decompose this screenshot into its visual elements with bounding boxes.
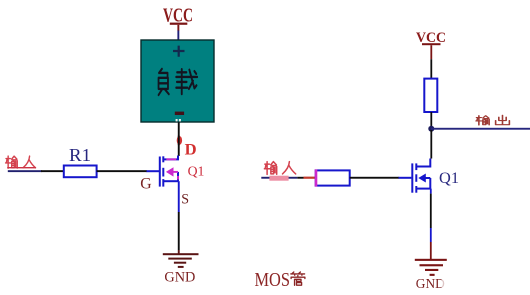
load label 负 xyxy=(159,69,169,95)
port 输入 (left) red underline xyxy=(7,167,36,168)
svg-text:Q1: Q1 xyxy=(439,170,459,187)
wire: to gate resistor (black bit) xyxy=(297,177,303,179)
body arrow (blue) xyxy=(418,174,426,183)
red pin marker on drain wire xyxy=(177,136,182,145)
load box 负载 xyxy=(141,40,214,122)
wire: load box to drain (node D) xyxy=(178,123,180,157)
wire: VCC to load box xyxy=(177,31,179,41)
body lead vertical xyxy=(177,172,179,181)
wire: source to ground (maroon bottom) xyxy=(430,242,432,260)
power port VCC (right) stem xyxy=(430,45,432,59)
red pin segment xyxy=(304,177,316,179)
load plus terminal xyxy=(173,46,185,57)
watermark smudge over GND xyxy=(442,276,454,289)
wire: source to ground (blue top) xyxy=(430,189,432,194)
wire: VCC to pull-up resistor xyxy=(430,59,432,78)
svg-text:Q1: Q1 xyxy=(188,164,205,179)
wire: R1 to gate xyxy=(97,170,147,172)
drain lead xyxy=(163,156,178,160)
power port VCC (right) bar xyxy=(422,43,441,45)
gate plate xyxy=(159,157,161,187)
channel dash top xyxy=(415,163,417,170)
wire: source to ground (blue part) xyxy=(178,181,180,212)
body lead vertical xyxy=(429,178,431,189)
port 输入 (right) label xyxy=(264,162,276,175)
wire: source to ground (blue mid) xyxy=(430,228,432,242)
ground GND (left) xyxy=(163,253,199,268)
label 输出 xyxy=(476,116,489,125)
source lead xyxy=(416,188,431,190)
power port VCC (left) bar xyxy=(170,23,188,25)
body arrow tail xyxy=(425,177,430,179)
port 输入 (left) label xyxy=(6,156,18,168)
junction node (output) xyxy=(428,126,434,132)
wire: source to ground (black part) xyxy=(178,212,180,250)
wire: source to ground (black) xyxy=(430,194,432,228)
resistor pull-up xyxy=(424,79,437,112)
wire: input port lead (navy) xyxy=(8,170,42,172)
wire: source to ground (maroon tip) xyxy=(178,250,180,254)
resistor left edge magenta xyxy=(315,169,318,186)
svg-text:R1: R1 xyxy=(69,145,91,165)
ground GND (right) xyxy=(415,259,447,276)
svg-text:GND: GND xyxy=(416,276,445,291)
gate lead xyxy=(147,170,160,172)
source lead xyxy=(163,180,178,182)
body/source magenta blob xyxy=(177,176,179,180)
wire: resistor to gate xyxy=(350,177,400,179)
resistor gate series xyxy=(316,170,350,185)
load minus terminal xyxy=(175,112,184,115)
gate lead xyxy=(399,177,412,179)
mosfet Q1 (left) xyxy=(147,156,179,187)
port highlight bar (pink) xyxy=(269,176,288,181)
gate plate xyxy=(411,163,413,192)
svg-text:G: G xyxy=(140,175,152,192)
load label 载 xyxy=(176,69,197,94)
channel dash bottom xyxy=(162,179,164,187)
channel dash middle xyxy=(162,168,164,177)
svg-text:D: D xyxy=(185,141,197,158)
port lead wire (navy) xyxy=(261,177,297,179)
wire: output xyxy=(431,128,530,130)
drain lead xyxy=(416,159,430,167)
channel dash bottom xyxy=(415,186,417,193)
drain lead magenta overlay xyxy=(166,158,176,160)
mosfet Q1 (right) xyxy=(399,159,431,193)
resistor R1 xyxy=(64,166,97,178)
svg-text:S: S xyxy=(181,192,189,208)
channel dash top xyxy=(162,156,164,162)
pin gap dots xyxy=(176,119,178,121)
svg-text:GND: GND xyxy=(164,270,195,286)
wire: input to R1 xyxy=(41,170,64,172)
wire: node to drain xyxy=(430,130,432,159)
body arrow (magenta) xyxy=(166,167,174,176)
channel dash middle xyxy=(415,174,417,182)
wire: resistor to node xyxy=(430,112,432,127)
power port VCC (left) stem xyxy=(177,25,179,31)
svg-text:MOS: MOS xyxy=(255,270,291,291)
